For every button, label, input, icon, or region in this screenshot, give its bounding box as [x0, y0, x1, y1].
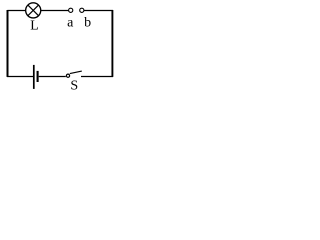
svg-text:L: L — [30, 18, 38, 33]
switch S: pivot circle — [66, 74, 69, 77]
battery: long thin plate (positive) — [33, 65, 35, 89]
lamp L1 circle — [26, 3, 41, 18]
svg-text:b: b — [84, 16, 91, 31]
wire: bottom segment from right corner to switch — [81, 76, 113, 78]
wire: bottom segment from battery to left corner — [7, 76, 33, 78]
lamp X diagonal 2 — [28, 5, 39, 16]
svg-text:a: a — [67, 16, 74, 31]
wire: left vertical — [7, 10, 9, 77]
switch S: blade — [70, 71, 82, 74]
wire: top segment from terminal b to right corner — [84, 10, 113, 12]
wire: right vertical — [111, 10, 113, 77]
wire: bottom segment from switch to battery — [39, 76, 66, 78]
lamp X diagonal 1 — [28, 5, 39, 16]
battery: short thick plate (negative) — [37, 71, 39, 82]
terminal b (open circle) — [80, 8, 84, 12]
terminal a (open circle) — [69, 8, 73, 12]
wire: top-left segment from left corner to lamp — [7, 10, 25, 12]
wire: top segment from lamp to terminal a — [41, 10, 68, 12]
svg-text:S: S — [70, 78, 78, 90]
